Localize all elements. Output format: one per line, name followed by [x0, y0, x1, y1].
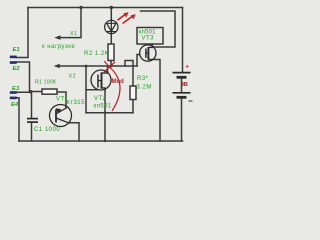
svg-text:9В: 9В [181, 82, 188, 88]
svg-text:кт315: кт315 [67, 100, 85, 106]
svg-text:E1: E1 [13, 47, 20, 53]
svg-text:C1 1000: C1 1000 [34, 127, 60, 133]
svg-text:X2: X2 [69, 74, 77, 80]
svg-text:R3*: R3* [137, 76, 149, 82]
svg-text:+: + [185, 64, 189, 71]
svg-text:E3: E3 [12, 86, 20, 92]
svg-text:VT2: VT2 [94, 96, 107, 102]
svg-text:R2 1.2K: R2 1.2K [84, 51, 109, 57]
svg-text:R1 100K: R1 100K [35, 80, 57, 86]
svg-text:Mod: Mod [112, 79, 125, 85]
svg-text:E2: E2 [13, 66, 21, 72]
svg-text:X1: X1 [70, 31, 78, 37]
svg-text:E4: E4 [11, 102, 19, 108]
svg-text:кп501: кп501 [94, 104, 113, 110]
svg-text:3.2M: 3.2M [137, 85, 152, 91]
svg-text:к нагрузке: к нагрузке [42, 44, 75, 50]
svg-text:VT3: VT3 [142, 36, 155, 42]
